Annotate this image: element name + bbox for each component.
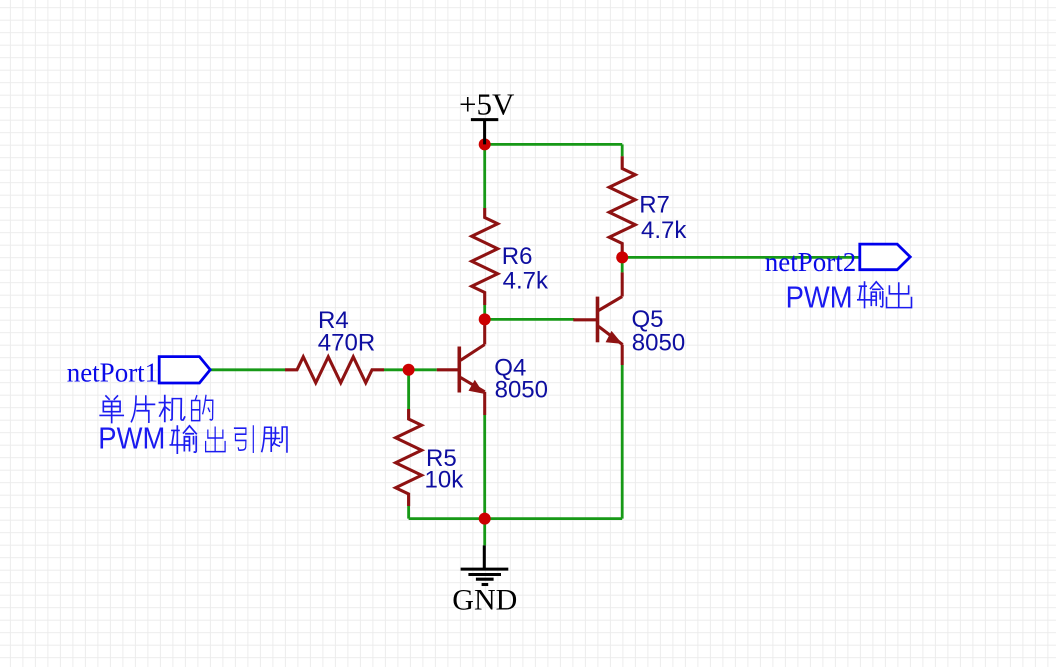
hanzi 输 (line2) xyxy=(170,426,196,453)
svg-text:8050: 8050 xyxy=(632,329,685,356)
junction node GND xyxy=(479,513,491,525)
wire R7 top vertical xyxy=(621,144,624,156)
svg-text:netPort1: netPort1 xyxy=(67,358,159,388)
svg-text:R6: R6 xyxy=(502,243,533,270)
svg-text:4.7k: 4.7k xyxy=(503,268,549,295)
wire ground rail horizontal xyxy=(409,517,623,520)
port netPort2 xyxy=(860,244,910,270)
hanzi 引 xyxy=(235,426,254,452)
resistor R4 xyxy=(285,357,384,383)
hanzi 单 xyxy=(100,396,123,423)
wire node A down to R5 xyxy=(407,370,410,409)
svg-text:PWM: PWM xyxy=(786,280,853,315)
transistor Q5 xyxy=(573,272,622,365)
wire R6 top vertical xyxy=(483,144,486,208)
hanzi 出 (right) xyxy=(887,283,912,308)
svg-text:8050: 8050 xyxy=(495,376,548,403)
svg-text:10k: 10k xyxy=(425,467,465,494)
svg-text:470R: 470R xyxy=(318,329,375,356)
wire R4 to node A and Q4 base xyxy=(384,368,437,371)
port netPort1 xyxy=(159,357,210,383)
hanzi 片 xyxy=(131,396,154,422)
svg-text:PWM: PWM xyxy=(98,421,165,456)
hanzi 脚 xyxy=(262,427,287,452)
svg-text:4.7k: 4.7k xyxy=(641,217,687,244)
hanzi 输 (right) xyxy=(858,282,883,308)
junction node B xyxy=(479,313,491,325)
wire ground stub xyxy=(483,519,486,546)
wire Q4 emitter down xyxy=(483,415,486,519)
wire node B to Q5 base xyxy=(485,318,575,321)
hanzi 出 (line2) xyxy=(206,427,225,451)
wire netPort1 to R4 xyxy=(210,368,285,371)
hanzi 的 xyxy=(192,396,213,421)
resistor R6 xyxy=(472,208,498,305)
wire R6 bottom to node B xyxy=(483,305,486,319)
wire Q5 emitter down xyxy=(621,365,624,519)
power +5V symbol xyxy=(471,120,498,145)
ground symbol xyxy=(461,545,509,584)
wire R7 bottom to node C xyxy=(621,252,624,257)
wire output node C to netPort2 xyxy=(622,256,860,259)
svg-text:R7: R7 xyxy=(639,192,670,219)
junction node C xyxy=(616,251,628,263)
Q4 emitter arrow xyxy=(469,380,484,394)
junction node +5V xyxy=(479,138,491,150)
resistor R5 xyxy=(396,409,422,506)
wire node C to Q5 collector xyxy=(621,257,624,272)
transistor Q4 xyxy=(437,319,485,415)
svg-text:GND: GND xyxy=(452,584,517,617)
Q5 emitter arrow xyxy=(606,331,623,344)
wire top horizontal +5V to R7 xyxy=(485,143,623,146)
wire R5 bottom to ground rail xyxy=(407,506,410,519)
resistor R7 xyxy=(609,156,635,252)
svg-text:netPort2: netPort2 xyxy=(765,247,857,277)
junction node A xyxy=(403,364,415,376)
svg-text:+5V: +5V xyxy=(459,87,515,122)
hanzi 机 xyxy=(159,396,184,422)
